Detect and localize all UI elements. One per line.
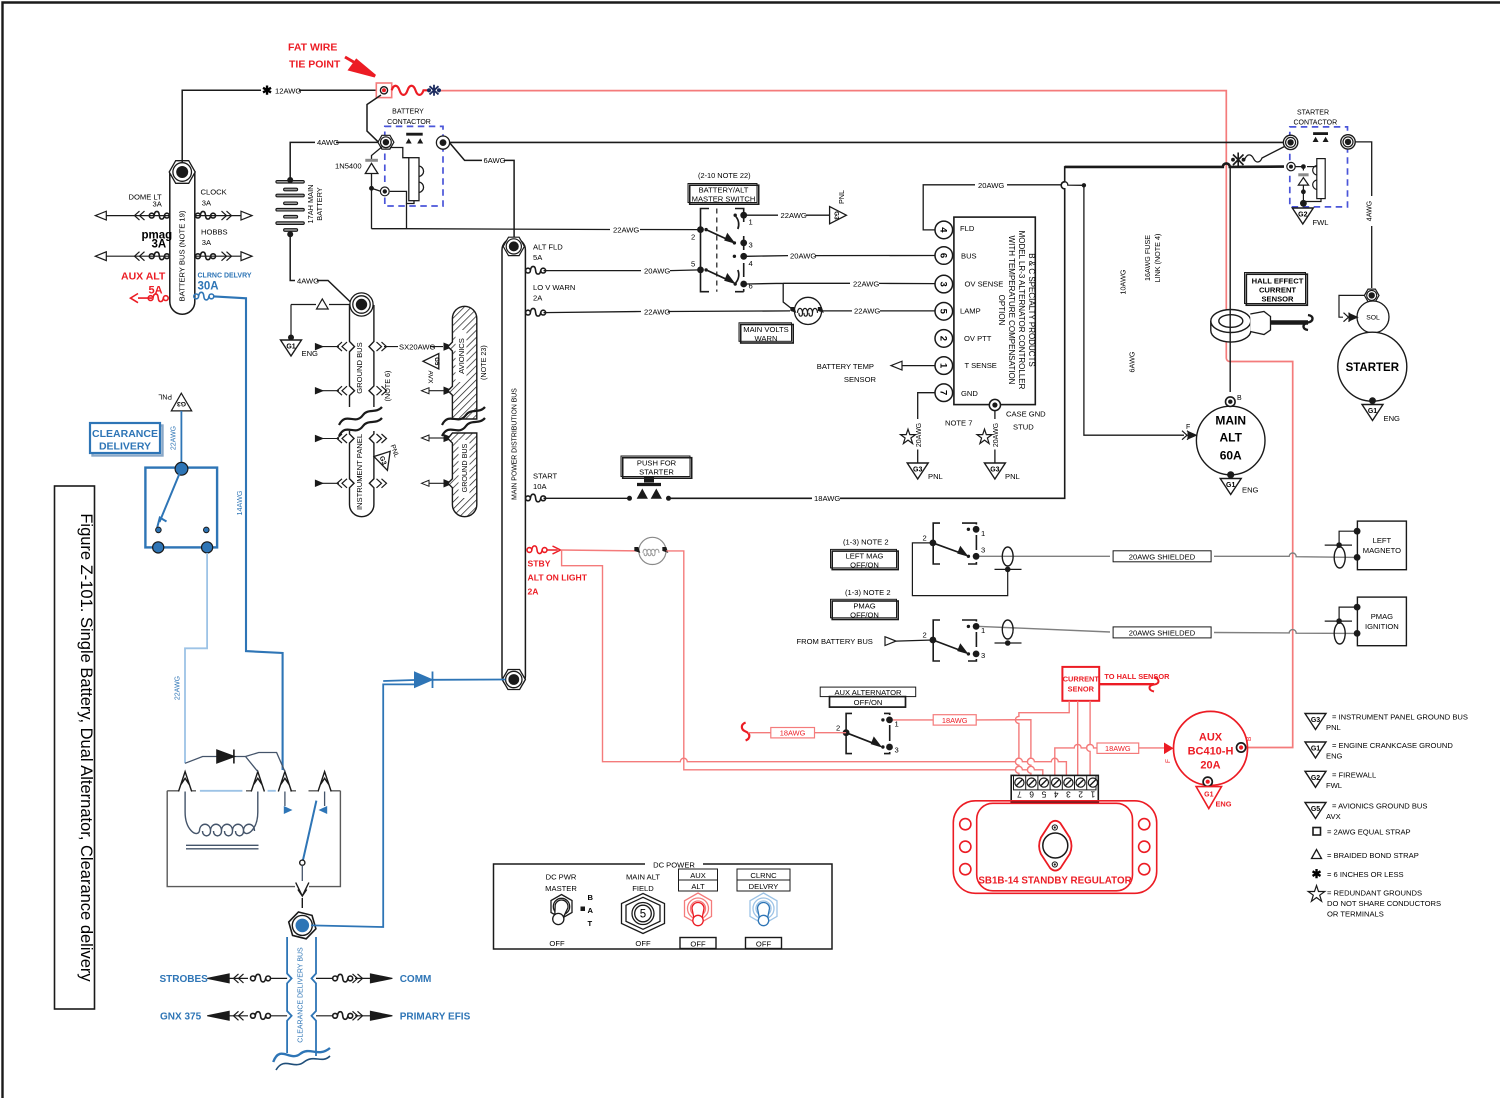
svg-text:ENG: ENG [302, 349, 319, 358]
svg-text:AVX: AVX [427, 371, 434, 385]
pmag switch pin 1 [973, 623, 980, 630]
svg-text:PNL: PNL [1005, 472, 1020, 481]
wire lamp to LR3 LAMP pin [822, 310, 935, 312]
svg-text:DC PWR: DC PWR [546, 873, 577, 882]
case gnd stud [989, 399, 1000, 410]
LR3 pin 7 GND [935, 384, 953, 402]
wire fat 2AWG contactor to starter contactor [450, 141, 1284, 143]
svg-text:SOL: SOL [1366, 315, 1380, 322]
starter contactor coil [1303, 159, 1325, 202]
wire 12AWG tie point to contactor post [367, 95, 381, 142]
red wire stby fuse to lamp [561, 549, 639, 552]
aux B terminal [1237, 743, 1246, 752]
pmag switch arm [933, 640, 967, 653]
ground bus break squiggles [339, 407, 382, 436]
svg-text:DO NOT SHARE CONDUCTORS: DO NOT SHARE CONDUCTORS [1327, 899, 1441, 908]
svg-text:WITH TEMPERATURE COMPENSATION: WITH TEMPERATURE COMPENSATION [1007, 236, 1016, 385]
solenoid ring terminal [1364, 289, 1379, 302]
sw2 toggle [622, 894, 665, 934]
svg-text:ALT FLD: ALT FLD [533, 243, 563, 252]
wire 22AWG fuse to lamp [544, 311, 791, 313]
junction dot fld [1082, 183, 1086, 187]
fat wire tie point [376, 83, 391, 98]
module chevron tab 3 [278, 772, 291, 792]
svg-text:STARTER: STARTER [1346, 362, 1400, 374]
svg-text:T: T [588, 919, 593, 928]
svg-text:3A: 3A [202, 238, 212, 247]
svg-text:SENSOR: SENSOR [1261, 295, 1294, 304]
svg-text:ALT: ALT [691, 882, 705, 891]
light blue wire switch to module [185, 553, 207, 763]
svg-text:SENSOR: SENSOR [844, 375, 877, 384]
ground G1 ENG starter [1362, 405, 1383, 421]
svg-text:= REDUNDANT GROUNDS: = REDUNDANT GROUNDS [1327, 889, 1422, 898]
svg-text:GNX 375: GNX 375 [160, 1012, 202, 1023]
avionics ground bus label [459, 440, 470, 498]
battery contactor contact bar [406, 133, 423, 136]
row COMM [316, 974, 392, 983]
wire pin4 to LR3 BUS [747, 255, 935, 258]
module chevron tab 4 [318, 772, 331, 792]
svg-text:MAIN VOLTS: MAIN VOLTS [743, 325, 788, 334]
svg-text:5A: 5A [533, 253, 543, 262]
svg-text:1: 1 [749, 218, 753, 227]
svg-text:MAGNETO: MAGNETO [1363, 546, 1401, 555]
svg-text:14AWG: 14AWG [235, 490, 244, 515]
svg-text:22AWG: 22AWG [644, 307, 670, 316]
svg-text:2A: 2A [528, 587, 539, 597]
clearance switch bottom left dot [153, 542, 164, 553]
DC POWER label [645, 858, 703, 869]
wire braided strap to ground bus [291, 304, 350, 306]
main bus bottom ring [502, 670, 525, 690]
svg-text:OFF: OFF [756, 939, 772, 948]
ground bus tab row 4 [422, 480, 453, 487]
svg-text:DELIVERY: DELIVERY [99, 441, 151, 453]
svg-text:3: 3 [895, 746, 899, 755]
SB1B-14 regulator body [953, 801, 1156, 894]
pmag switch body [933, 620, 976, 661]
svg-text:6: 6 [749, 282, 753, 291]
terminal numbers [1017, 789, 1096, 799]
svg-text:18AWG: 18AWG [1105, 744, 1131, 753]
terminal strip [1011, 775, 1098, 801]
aux alt switch arm [846, 733, 880, 746]
main volts warn lamp [788, 297, 825, 324]
LR3 pin 5 LAMP [935, 303, 953, 321]
svg-text:OFF: OFF [690, 939, 706, 948]
output chevrons down [296, 883, 309, 909]
svg-text:DELVRY: DELVRY [749, 882, 779, 891]
svg-text:OFF: OFF [549, 939, 565, 948]
svg-text:G1: G1 [1311, 746, 1320, 753]
svg-text:20AWG: 20AWG [978, 181, 1004, 190]
ground bus tab row 2 [315, 387, 452, 394]
svg-text:18AWG: 18AWG [780, 729, 806, 738]
switch pin 5 [697, 267, 704, 274]
red wire sensor left to terminal 7 [1015, 701, 1069, 776]
red wire sensor right to terminal 1 [1087, 701, 1090, 776]
svg-text:3: 3 [749, 241, 753, 250]
svg-text:ENG: ENG [1216, 800, 1232, 809]
svg-text:3: 3 [981, 651, 985, 660]
pmag ignition shield wire [1339, 607, 1357, 621]
regulator transistor diamond [1039, 821, 1071, 871]
svg-text:= 2AWG EQUAL STRAP: = 2AWG EQUAL STRAP [1327, 828, 1411, 837]
svg-text:AUX: AUX [690, 871, 706, 880]
wire pin6 to OV sense and lamp [747, 283, 935, 311]
hall sensor red squiggle [1150, 678, 1159, 692]
LEFT MAG OFF/ON box [831, 549, 899, 569]
clearance bus bottom squiggle [273, 1048, 330, 1062]
left magneto shield bar [1325, 544, 1352, 546]
svg-text:LO V WARN: LO V WARN [533, 283, 575, 292]
DC POWER panel box [494, 864, 833, 949]
svg-text:G1: G1 [1204, 792, 1213, 799]
red wire A from fuse branch to terminal 3 [562, 550, 1067, 775]
clearance switch bottom right dot [202, 542, 213, 553]
svg-text:2: 2 [691, 233, 695, 242]
svg-text:3: 3 [1066, 789, 1071, 799]
svg-text:18AWG: 18AWG [814, 494, 840, 503]
svg-text:1: 1 [981, 626, 985, 635]
svg-text:NOTE 7: NOTE 7 [945, 419, 972, 428]
svg-text:20AWG: 20AWG [644, 266, 670, 275]
tab chevrons row3 [337, 434, 347, 443]
svg-text:10A: 10A [533, 482, 547, 491]
sw3 OFF boxed [680, 938, 716, 949]
module light blue rail segments [200, 790, 276, 792]
svg-text:GROUND BUS: GROUND BUS [355, 342, 364, 393]
CURRENT SENOR box [1062, 667, 1099, 701]
svg-text:CONTACTOR: CONTACTOR [387, 119, 431, 126]
svg-text:AUX ALTERNATOR: AUX ALTERNATOR [834, 688, 902, 697]
svg-text:OR TERMINALS: OR TERMINALS [1327, 910, 1384, 919]
svg-text:BATTERY: BATTERY [392, 109, 424, 116]
pmag ignition loop [1334, 623, 1345, 644]
svg-text:STUD: STUD [1013, 423, 1034, 432]
pmag shield bar and dot [995, 642, 1022, 644]
battery bus top ring terminal [169, 161, 195, 184]
svg-text:2: 2 [836, 724, 840, 733]
svg-text:BATTERY: BATTERY [315, 187, 324, 220]
battery contactor left post [378, 135, 394, 149]
pmag P-lead wire [980, 626, 1358, 633]
svg-text:20A: 20A [1200, 760, 1220, 772]
svg-text:MASTER: MASTER [545, 884, 577, 893]
battery contactor coil [390, 148, 424, 229]
sw4 CLRNC DELVRY boxed labels [737, 869, 790, 880]
svg-text:22AWG: 22AWG [171, 426, 178, 450]
red wire to pin2 [748, 732, 846, 734]
wire to push button [544, 497, 629, 499]
svg-text:3: 3 [981, 546, 985, 555]
svg-text:G5: G5 [1311, 806, 1320, 813]
ground G1 ENG [281, 340, 302, 356]
hall sensor torus [1211, 310, 1251, 343]
svg-text:5: 5 [640, 909, 646, 921]
wire from battery bus arrow [896, 640, 933, 641]
svg-text:Figure Z-101. Single Battery,: Figure Z-101. Single Battery, Dual Alter… [77, 513, 95, 982]
stby alt lamp [632, 537, 670, 564]
svg-text:4: 4 [1053, 789, 1058, 799]
switch pin 3 [740, 240, 747, 247]
svg-text:BUS: BUS [961, 251, 977, 260]
wire pin7 GND down [918, 393, 935, 463]
svg-text:ENG: ENG [1326, 752, 1343, 761]
svg-text:16AWG FUSE: 16AWG FUSE [1143, 235, 1152, 281]
fuse START 10A [526, 494, 546, 502]
svg-text:ENG: ENG [1242, 486, 1259, 495]
svg-text:MAIN POWER DISTRIBUTION BUS: MAIN POWER DISTRIBUTION BUS [512, 388, 519, 500]
svg-text:AVIONICS: AVIONICS [457, 338, 466, 374]
svg-text:= BRAIDED BOND STRAP: = BRAIDED BOND STRAP [1327, 851, 1419, 860]
svg-text:10AWG: 10AWG [1119, 269, 1128, 294]
aux alt switch pin 1 [886, 717, 893, 724]
wire B lead through hall sensor [1229, 167, 1231, 392]
svg-text:OFF/ON: OFF/ON [850, 610, 879, 619]
svg-text:G3: G3 [177, 400, 186, 407]
svg-text:22AWG: 22AWG [854, 307, 880, 316]
svg-text:SENOR: SENOR [1068, 685, 1095, 694]
svg-text:6: 6 [1029, 789, 1034, 799]
red wire B from lamp to terminal 5 [666, 551, 1043, 776]
svg-text:OV SENSE: OV SENSE [965, 280, 1004, 289]
clearance switch small dot left [156, 527, 162, 533]
svg-text:MODEL LR-3 ALTERNATOR CONTROLL: MODEL LR-3 ALTERNATOR CONTROLLER [1017, 231, 1026, 390]
fuse ALT FLD 5A [526, 266, 546, 274]
left mag switch pin 3 [973, 553, 980, 560]
svg-text:2: 2 [938, 336, 949, 341]
SOL circle [1357, 301, 1389, 333]
LR3 pin 3 OV SENSE [935, 275, 953, 293]
starter contactor small post [1287, 162, 1295, 170]
svg-text:22AWG: 22AWG [613, 225, 639, 234]
svg-text:CLEARANCE DELIVERY BUS: CLEARANCE DELIVERY BUS [298, 947, 305, 1043]
starter contactor ground dot [1300, 200, 1307, 207]
aux alt switch body [846, 713, 890, 753]
svg-text:2A: 2A [533, 294, 543, 303]
svg-text:OV PTT: OV PTT [964, 334, 992, 343]
svg-text:18AWG: 18AWG [942, 716, 968, 725]
row GNX 375 [207, 1011, 287, 1020]
aux alternator label box [820, 687, 916, 707]
svg-text:(2-10 NOTE 22): (2-10 NOTE 22) [698, 171, 751, 180]
figure title box [55, 486, 95, 1009]
sw3 toggle red [685, 893, 712, 926]
red wire pin1 to terminal 6 [893, 720, 1031, 776]
switch pin 6 [740, 281, 747, 288]
svg-text:22AWG: 22AWG [781, 211, 807, 220]
starter contactor right post [1341, 135, 1355, 149]
switch pin 4 [740, 253, 747, 260]
blue wire node to diode [311, 684, 414, 927]
svg-text:G3: G3 [1311, 717, 1320, 724]
svg-text:HOBBS: HOBBS [201, 228, 228, 237]
ground G3 PNL inverted clearance [171, 393, 191, 411]
ground G2 FWL [1292, 208, 1313, 224]
svg-text:G1: G1 [286, 344, 295, 351]
ground G3 PNL right-pointing [830, 207, 847, 224]
svg-text:STBY: STBY [528, 559, 551, 569]
left mag P-lead wire [980, 553, 1358, 557]
LR3 pin 6 BUS [935, 247, 953, 265]
svg-text:= INSTRUMENT PANEL GROUND BUS: = INSTRUMENT PANEL GROUND BUS [1332, 713, 1468, 722]
CLEARANCE DELIVERY box [90, 423, 163, 456]
ground G3 PNL case [984, 463, 1005, 479]
left mag shield loop [1002, 547, 1013, 566]
svg-text:FAT WIRE: FAT WIRE [288, 42, 337, 54]
svg-text:6: 6 [938, 253, 949, 258]
terminal screws [1015, 778, 1098, 787]
svg-text:OFF/ON: OFF/ON [850, 561, 879, 570]
svg-text:GROUND BUS: GROUND BUS [460, 443, 469, 492]
wire 18AWG starter run [669, 163, 1285, 498]
switch arm 5-6 [706, 270, 733, 283]
svg-text:LAMP: LAMP [960, 307, 981, 316]
left mag shield bar and dot [995, 568, 1022, 570]
svg-text:STARTER: STARTER [639, 468, 674, 477]
hall sensor connector [1250, 312, 1270, 335]
svg-text:= AVIONICS GROUND BUS: = AVIONICS GROUND BUS [1332, 802, 1427, 811]
transistor screws [1052, 825, 1057, 830]
svg-text:FROM BATTERY BUS: FROM BATTERY BUS [797, 637, 873, 646]
svg-text:G3: G3 [990, 467, 999, 474]
svg-text:22AWG: 22AWG [853, 279, 879, 288]
svg-text:DC POWER: DC POWER [653, 860, 695, 869]
svg-text:6AWG: 6AWG [484, 156, 506, 165]
svg-text:SX20AWG: SX20AWG [399, 343, 436, 352]
battery/alt master switch label box [688, 184, 759, 205]
svg-text:LEFT: LEFT [1373, 536, 1392, 545]
wire 22AWG contactor coil to master switch [372, 228, 701, 231]
svg-text:1N5400: 1N5400 [335, 161, 362, 170]
module top rail [167, 791, 340, 887]
svg-text:4AWG: 4AWG [1367, 201, 1374, 221]
wire 20AWG FLD loop [923, 182, 1084, 230]
fuse row DOME LT [95, 211, 170, 220]
starter contactor diode [1295, 165, 1308, 203]
module diode [217, 750, 234, 764]
svg-text:ENG: ENG [1384, 414, 1401, 423]
LR3 pin 1 T SENSE [935, 357, 953, 375]
transistor can [1043, 833, 1068, 858]
svg-text:PMAG: PMAG [853, 601, 875, 610]
clearance switch top dot [175, 462, 188, 475]
main power distribution bus [502, 238, 525, 687]
ground G3 PNL panel bus [374, 451, 396, 473]
LR3 pin 4 FLD [935, 221, 953, 239]
blue 22AWG wire to ground [180, 411, 182, 463]
svg-text:TIE POINT: TIE POINT [289, 59, 341, 71]
braided strap triangle [317, 299, 329, 309]
ground bus top ring [350, 293, 373, 316]
svg-text:(1-3) NOTE 2: (1-3) NOTE 2 [845, 588, 891, 597]
avionics label [456, 330, 467, 382]
red squiggle flag 18AWG [742, 723, 750, 741]
PUSH FOR STARTER box [621, 456, 692, 478]
AUX alternator circle [1174, 711, 1248, 785]
ground G1 ENG aux red [1196, 787, 1221, 809]
svg-text:5: 5 [691, 260, 695, 269]
left mag switch body [933, 523, 976, 564]
svg-text:G3: G3 [913, 467, 922, 474]
20AWG SHIELDED box 2 [1113, 627, 1211, 638]
svg-text:PNL: PNL [928, 472, 943, 481]
svg-text:✱: ✱ [262, 84, 272, 98]
svg-text:LEFT MAG: LEFT MAG [846, 552, 884, 561]
svg-text:ALT ON LIGHT: ALT ON LIGHT [528, 573, 588, 583]
svg-text:4: 4 [938, 227, 949, 233]
module contact arrows blue [284, 806, 293, 814]
module arm pivot circle [300, 860, 305, 865]
18AWG box left [771, 728, 815, 738]
red feeder wire to starter area [441, 91, 1293, 748]
svg-text:BATTERY/ALT: BATTERY/ALT [699, 186, 749, 195]
svg-text:SB1B-14 STANDBY REGULATOR: SB1B-14 STANDBY REGULATOR [978, 876, 1131, 887]
hall sensor cable [1271, 320, 1309, 325]
svg-text:BATTERY BUS (NOTE 19): BATTERY BUS (NOTE 19) [178, 210, 187, 301]
svg-text:MAIN: MAIN [1215, 414, 1246, 428]
svg-text:5: 5 [1041, 789, 1046, 799]
clearance node ring [286, 910, 319, 940]
MAIN VOLTS WARN box [739, 323, 793, 343]
row STROBES [207, 974, 287, 983]
left magneto loop [1334, 547, 1345, 568]
regulator ear holes [960, 819, 1150, 875]
wire 6AWG contactor to main bus [450, 143, 515, 240]
clearance bus bottom squiggle2 [276, 1056, 330, 1070]
ground bus stadium [350, 305, 374, 517]
svg-text:3: 3 [938, 281, 949, 286]
pmag switch pin 3 [973, 651, 980, 658]
svg-text:AUX ALT: AUX ALT [121, 271, 166, 283]
svg-text:OFF: OFF [635, 939, 651, 948]
svg-text:F: F [1186, 424, 1190, 431]
aux arrow into F [1164, 743, 1174, 755]
pmag ignition shield bar [1325, 620, 1352, 622]
svg-text:3A: 3A [202, 199, 212, 208]
sw4 OFF boxed [746, 938, 782, 949]
svg-text:PNL: PNL [837, 190, 846, 204]
switch arm 2-3 [706, 230, 733, 243]
svg-text:BC410-H: BC410-H [1188, 746, 1234, 758]
svg-text:17AH MAIN: 17AH MAIN [306, 184, 315, 223]
svg-text:STARTER: STARTER [1297, 110, 1329, 117]
wire case gnd down [994, 411, 996, 463]
legend redundant grounds star [1308, 886, 1325, 902]
wire 4AWG battery to ground [290, 234, 352, 303]
wire 20AWG fuse to switch pin5 [544, 269, 701, 272]
battery contactor small post [380, 187, 389, 196]
LEFT MAGNETO box [1357, 521, 1406, 570]
svg-text:PRIMARY EFIS: PRIMARY EFIS [400, 1012, 471, 1023]
svg-text:4AWG: 4AWG [297, 276, 319, 285]
PMAG IGNITION box [1357, 597, 1406, 646]
svg-text:CASE GND: CASE GND [1006, 410, 1046, 419]
wire T sense stub with arrow [902, 365, 935, 367]
battery contactor dashed box [385, 126, 443, 206]
battery 17AH [276, 181, 304, 232]
svg-text:2: 2 [923, 534, 927, 543]
svg-text:CLRNC DELVRY: CLRNC DELVRY [198, 272, 252, 279]
wire 4AWG battery to contactor [290, 142, 378, 180]
ground G3 PNL pin7 [907, 463, 928, 479]
svg-text:AVX: AVX [1326, 812, 1341, 821]
sw1 toggle [551, 895, 572, 925]
wire to G1 [290, 305, 292, 338]
red annotation arrow [345, 57, 375, 76]
